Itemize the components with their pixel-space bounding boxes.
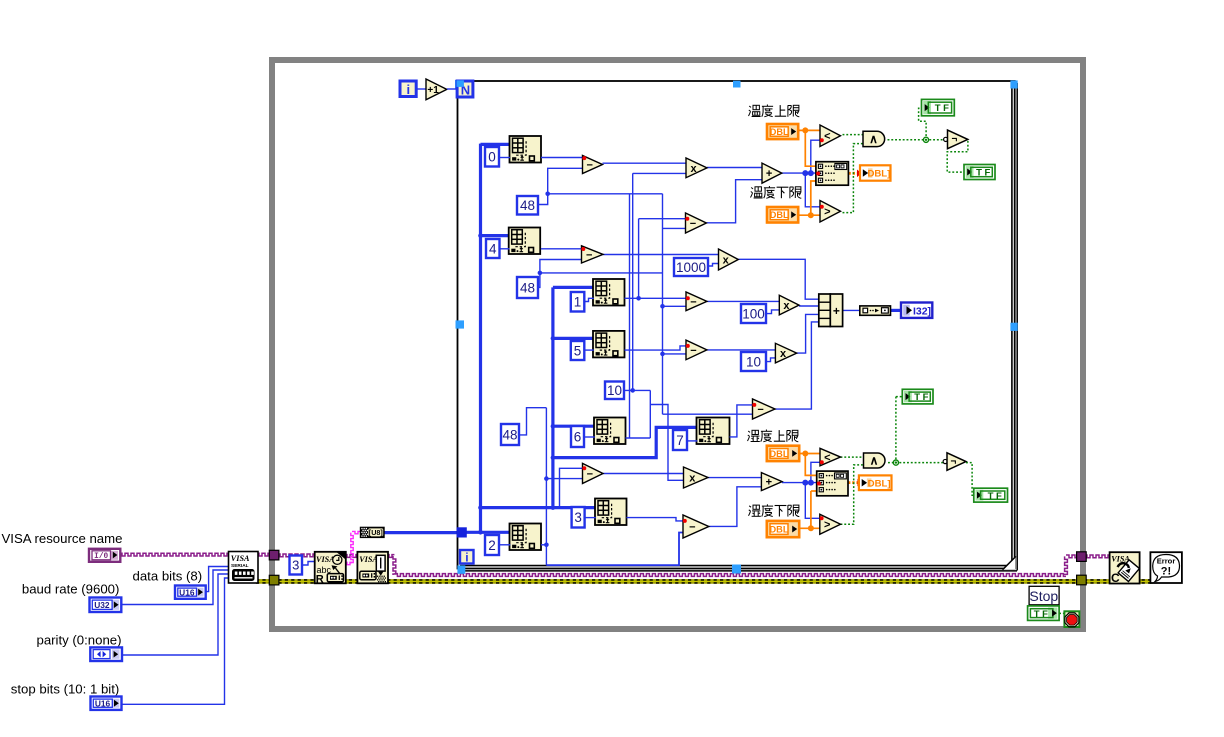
wire data bits to serial config <box>204 567 230 592</box>
constant 1 <box>571 292 585 312</box>
svg-text:?!: ?! <box>1161 566 1171 578</box>
wire 48 tap to subtract3 lower input <box>663 305 687 307</box>
wire compound output to converter <box>842 309 860 311</box>
svg-text:T F: T F <box>976 168 990 179</box>
wire subtract3 output to multiply100 upper <box>707 300 779 302</box>
I32 array indicator <box>901 303 932 318</box>
tunnel olive error on while-loop left edge <box>269 575 279 585</box>
svg-text:2: 2 <box>488 538 496 553</box>
wire 48 tap to extra subtract lower input <box>663 227 686 229</box>
wire index b3 output to subtract7 upper <box>627 518 684 521</box>
index array node b7 <box>697 418 730 445</box>
svg-text:1000: 1000 <box>676 260 706 275</box>
label temperature upper limit <box>749 105 761 116</box>
wire i to increment <box>417 88 427 90</box>
svg-text:Error: Error <box>1157 557 1176 566</box>
wire VISA purple from right tunnel to VISA close <box>1084 555 1111 558</box>
wire DBL humidity lower orange to greater2 and in-range2 <box>799 527 820 529</box>
wire byte array riser x553 <box>551 287 554 507</box>
data bits U16 control <box>175 586 206 599</box>
svg-text:1: 1 <box>574 295 582 310</box>
subtract3 function <box>686 292 707 311</box>
wire extra subtract output riser to add1 lower <box>706 180 762 223</box>
index array node b3 <box>595 499 627 526</box>
svg-text:x: x <box>690 163 697 175</box>
string to byte array node <box>360 527 385 538</box>
not1 gate <box>944 137 948 141</box>
wire constant 10 right to multiply10 lower <box>766 358 775 362</box>
DBL control temperature upper limit <box>767 124 798 139</box>
less-than2 comparison <box>820 448 841 466</box>
wire constant 48a riser to subtract1 lower input and branch <box>538 168 583 204</box>
greater-than1 comparison <box>820 201 841 223</box>
svg-text:baud rate (9600): baud rate (9600) <box>22 582 120 597</box>
svg-text:T F: T F <box>914 392 928 403</box>
wire VISA resource name control to serial config <box>119 553 230 556</box>
svg-text:x: x <box>689 472 696 484</box>
parity ring control <box>90 647 122 661</box>
wire constant 1000 to multiply1000 lower <box>708 264 719 267</box>
wire VISA purple between VISA Read and VISA property icon <box>344 555 359 558</box>
wire boolean greater2 up to and2 <box>841 465 864 524</box>
wire index b1 output to subtract3 upper with riser to extra subtract <box>625 297 687 299</box>
wire boolean and1 output with junction to TF1 and not1 <box>888 139 946 141</box>
wire boolean less2 to and2 <box>841 456 864 458</box>
svg-text:>: > <box>824 206 830 218</box>
constant 0 <box>485 147 499 167</box>
wire DBL humidity upper orange to less2 and in-range2 <box>799 453 820 455</box>
wire increment to N <box>447 88 457 90</box>
wire error from right tunnel to VISA close and error handler <box>1084 579 1153 584</box>
wire 48 tap to subtract6 lower input <box>546 478 582 480</box>
while loop border <box>272 60 1083 629</box>
constant 4 <box>486 239 500 258</box>
terminal N count of for loop <box>457 81 473 97</box>
svg-text:DBL: DBL <box>770 449 789 459</box>
wire riser to subtract6 upper input <box>560 468 583 507</box>
svg-text:0: 0 <box>488 150 496 165</box>
wire subtract7 output riser to add2 lower <box>709 487 762 527</box>
wire error from VISA serial to left tunnel <box>256 579 272 584</box>
wire humidity multiply output to add2 upper <box>708 477 762 479</box>
wire boolean stop control to loop condition <box>1059 612 1065 614</box>
svg-text:+: + <box>833 304 840 318</box>
wire DBL lower-limit orange to greater1 and in-range <box>798 214 820 216</box>
multiply10 function <box>775 343 796 363</box>
constant 2 <box>485 535 499 555</box>
wire branch up to less1 lower <box>811 140 821 173</box>
constant 3 index <box>572 507 585 528</box>
wire boolean greater1 up to and1 <box>843 144 863 213</box>
constant 7 <box>673 430 687 450</box>
in-range-and-coerce 2 <box>817 471 848 496</box>
svg-text:T F: T F <box>988 491 1002 502</box>
wire multiply1 output to add1 upper <box>707 167 762 169</box>
wire byte array vertical riser x480 <box>479 144 482 533</box>
for loop corner fold <box>1003 557 1016 570</box>
wire converter output thick to I32 indicator <box>891 309 902 312</box>
svg-text:−: − <box>690 296 696 308</box>
constant 10 left <box>605 382 624 400</box>
svg-text:stop bits (10: 1 bit): stop bits (10: 1 bit) <box>11 682 119 697</box>
wire constant 2 to index input <box>499 544 510 546</box>
wire 48b long branch to vertical distribution x662 <box>540 272 663 274</box>
wire constant 3 to index input <box>585 517 596 519</box>
svg-text:100: 100 <box>742 306 765 321</box>
resize handle left-middle of for loop <box>456 320 465 328</box>
svg-text:DBL: DBL <box>770 524 789 534</box>
svg-text:SERIAL: SERIAL <box>231 563 249 569</box>
svg-text:+1: +1 <box>427 85 439 96</box>
in-range-and-coerce 1 <box>816 162 849 186</box>
wire 48 vertical distribution x662 with taps <box>662 194 664 414</box>
wire byte-count 3 to VISA Read <box>302 562 316 566</box>
svg-text:T F: T F <box>1034 609 1048 620</box>
wire constant 48b riser to subtract2 lower input <box>538 260 582 288</box>
svg-text:R: R <box>316 573 324 585</box>
loop condition terminal <box>1064 611 1079 627</box>
resize handle over N corner <box>457 80 464 87</box>
wire byte array branch y507 to index-array 3 <box>481 506 597 509</box>
simple error handler icon <box>1150 552 1182 583</box>
svg-text:U16: U16 <box>95 698 111 708</box>
terminal i of while loop <box>400 81 416 97</box>
wire stop bits to serial config <box>120 578 230 704</box>
svg-text:+: + <box>766 477 772 489</box>
wire bottom run to subtract7 lower input <box>546 533 683 566</box>
and2 gate <box>864 453 886 468</box>
label humidity upper limit <box>748 430 760 441</box>
wire VISA resource purple from serial-config to left tunnel <box>256 553 274 556</box>
tunnel solid blue byte-array on for-loop left edge <box>457 527 467 537</box>
svg-text:<: < <box>824 131 830 143</box>
multiply100 function <box>779 295 799 315</box>
wire 48 tap to subtract4 lower input <box>663 353 687 355</box>
svg-text:parity (0:none): parity (0:none) <box>37 633 122 648</box>
wire branch down to greater2 upper <box>805 483 820 519</box>
svg-text:DBL]: DBL] <box>868 478 891 489</box>
wire byte array branch to index-array 0 <box>481 143 511 146</box>
svg-text:10: 10 <box>607 383 622 398</box>
svg-text:x: x <box>783 300 790 312</box>
svg-text:3: 3 <box>292 558 299 573</box>
wire byte array branch to index-array 6 <box>553 425 595 428</box>
index array node b2 <box>510 524 542 551</box>
wire 48 tap to subtract5 lower input <box>663 413 753 415</box>
baud rate U32 control <box>90 598 122 613</box>
wire index b7 output to subtract5 upper <box>730 405 753 437</box>
resize handle top-middle of for loop <box>733 81 741 88</box>
DBL array indicator temperature <box>860 165 891 180</box>
svg-text:48: 48 <box>502 427 517 442</box>
resize handle top-left of for loop <box>455 80 464 89</box>
DBL control humidity lower limit <box>767 521 799 537</box>
svg-text:>: > <box>824 519 830 531</box>
subtract7 function <box>683 515 709 538</box>
wire index b5 output to subtract4 upper <box>625 346 687 350</box>
index array node b6 <box>594 418 626 445</box>
wire byte array branch to index-array 4 <box>481 234 510 237</box>
svg-text:DBL]: DBL] <box>867 169 890 180</box>
not2 gate <box>943 459 947 463</box>
svg-text:3: 3 <box>574 510 582 525</box>
TF indicator temperature normal <box>964 165 995 180</box>
wire constant 7 to index input <box>687 440 697 442</box>
constant 6 <box>571 426 584 447</box>
constant 48 first <box>517 196 538 215</box>
wire in-range2 output dashed orange to DBL array indicator 2 <box>848 481 859 484</box>
index array node b1 <box>593 279 625 306</box>
wire constant 48c up-over jog to vertical x546 <box>519 408 546 435</box>
wire parity to serial config <box>121 574 230 655</box>
wire 48c vertical distribution x546 <box>545 408 547 566</box>
extra subtract function <box>686 213 707 233</box>
wire 48a branch right to distribution vertical <box>548 193 663 195</box>
wire boolean and2 output with junction to TF3 and not2 <box>888 462 945 464</box>
wire byte array branch y457 toward index-array 7 <box>553 427 698 457</box>
svg-text:[U8]: [U8] <box>369 528 383 537</box>
svg-text:5: 5 <box>574 343 582 358</box>
tunnel purple VISA on while-loop right edge <box>1077 552 1087 562</box>
svg-text:48: 48 <box>520 198 535 213</box>
terminal i of for loop <box>460 550 474 564</box>
tunnel purple VISA on while-loop left edge <box>269 550 279 560</box>
compound arithmetic add node <box>819 294 831 327</box>
wire byte array branch to index-array 5 <box>553 337 594 340</box>
svg-text:i: i <box>406 82 410 97</box>
index array node b0 <box>510 136 542 163</box>
constant 10 right <box>741 352 766 371</box>
svg-text:¬: ¬ <box>951 456 957 467</box>
svg-text:−: − <box>689 521 695 533</box>
resize handle bottom-left of for loop <box>457 565 465 573</box>
svg-text:¬: ¬ <box>951 134 957 145</box>
wire boolean less1 to and1 <box>843 134 863 136</box>
svg-text:10: 10 <box>746 354 761 369</box>
less-than1 comparison <box>820 125 841 147</box>
subtract4 function <box>686 340 707 360</box>
converter node to I32 <box>860 306 891 315</box>
wire constant 100 to multiply100 lower <box>766 310 779 314</box>
wire constant 10 left riser to multiply1 lower input <box>624 389 650 391</box>
svg-text:I32]: I32] <box>913 305 931 317</box>
svg-text:VISA: VISA <box>359 555 378 564</box>
wire 10 branch down to humidity multiply <box>649 390 651 438</box>
VISA resource name control <box>89 549 120 562</box>
svg-text:−: − <box>586 159 592 171</box>
wire DBL upper-limit orange to less1 and in-range <box>798 129 820 131</box>
constant 3 byte count <box>290 556 303 575</box>
label temperature lower limit <box>751 187 763 198</box>
tunnel olive error on while-loop right edge <box>1077 575 1087 585</box>
resize handle right-middle of for loop <box>1010 323 1017 331</box>
subtract2 function <box>582 246 604 263</box>
resize handle top-right of for loop <box>1010 80 1017 88</box>
svg-text:7: 7 <box>676 433 684 448</box>
VISA close icon <box>1110 552 1140 583</box>
wire subtract5 output riser to compound input4 <box>775 322 819 409</box>
TF indicator temperature alarm <box>922 99 955 115</box>
wire subtract4 output to multiply10 upper <box>707 349 776 351</box>
svg-text:−: − <box>586 249 592 261</box>
VISA bytes-at-port property icon <box>357 552 388 584</box>
stop TF control <box>1028 606 1060 621</box>
DBL control temperature lower limit <box>767 207 798 223</box>
wire byte array from String-To-Byte-Array to for-loop tunnel <box>384 531 460 534</box>
greater-than2 comparison <box>820 514 841 534</box>
wire constant 6 to index input <box>584 436 595 438</box>
wire index b0 output to subtract1 <box>541 157 583 159</box>
humidity multiply function <box>684 467 709 488</box>
svg-text:Stop: Stop <box>1029 588 1058 604</box>
multiply1000 function <box>719 249 739 270</box>
wire subtract2 output to multiply1000 upper <box>603 254 719 256</box>
label humidity lower limit <box>749 505 761 516</box>
wire byte array trunk inside loop to index-array 2 with junction <box>464 531 511 534</box>
wire branch down to greater1 upper <box>805 173 820 207</box>
wire index b6 output joining riser <box>626 437 651 439</box>
wire constant 5 to index input <box>584 349 594 351</box>
svg-text:T F: T F <box>935 103 949 114</box>
stop bits U16 control <box>91 697 122 710</box>
for loop border <box>458 81 1015 569</box>
index array node b5 <box>593 331 625 358</box>
wire multiply100 output to compound input2 <box>799 305 819 307</box>
subtract6 function <box>583 463 604 483</box>
svg-text:4: 4 <box>489 241 497 256</box>
index array node b4 <box>509 228 541 255</box>
svg-text:+: + <box>766 168 772 180</box>
wire baud rate to serial config <box>119 570 230 605</box>
constant 100 <box>741 304 766 323</box>
wire subtract6 output to humidity multiply upper <box>603 473 684 475</box>
wire constant 0 to index input <box>499 157 510 159</box>
wire vertical x629 passing down <box>629 194 631 438</box>
add2 function <box>761 473 782 491</box>
constant 1000 <box>674 258 708 276</box>
svg-text:i: i <box>465 551 468 565</box>
svg-text:−: − <box>690 345 696 357</box>
wire in-range1 output dashed orange to DBL array indicator <box>848 172 859 175</box>
constant 5 <box>571 341 585 360</box>
wire string pink VISA Read to String-To-Byte-Array <box>344 562 352 564</box>
svg-text:∧: ∧ <box>870 454 879 468</box>
svg-text:∧: ∧ <box>869 132 878 146</box>
wire byte array branch to index-array 1 <box>553 286 594 289</box>
svg-text:U32: U32 <box>94 600 110 610</box>
constant 48 third <box>501 424 519 445</box>
svg-text:6: 6 <box>574 429 582 444</box>
wire constant 1 to index input <box>584 298 594 301</box>
DBL control humidity upper limit <box>767 446 799 461</box>
wire branch up to less2 lower <box>811 462 821 482</box>
svg-text:VISA resource name: VISA resource name <box>2 531 123 546</box>
svg-text:48: 48 <box>520 280 535 295</box>
add1 function <box>762 163 782 183</box>
and1 gate <box>863 131 885 146</box>
VISA configure serial port icon <box>229 552 259 584</box>
DBL array indicator humidity <box>859 475 892 490</box>
constant 48 second <box>517 277 538 298</box>
svg-text:−: − <box>757 404 763 416</box>
multiply1 function <box>686 158 707 178</box>
wire add2 output to in-range2 with junctions <box>782 482 817 484</box>
wire index b2 output joins vertical <box>541 544 546 546</box>
wire index b4 output to subtract2 <box>541 248 582 250</box>
wire VISA purple inside loop: tunnel to VISA Read <box>277 554 316 557</box>
svg-text:data bits (8): data bits (8) <box>133 569 203 584</box>
wire multiply10 output riser to compound input3 <box>797 314 819 353</box>
svg-text:VISA: VISA <box>231 554 250 563</box>
wire constant 4 to index input <box>500 248 510 250</box>
svg-text:DBL: DBL <box>770 210 789 220</box>
stop button label <box>1029 586 1059 605</box>
subtract1 function <box>583 156 603 174</box>
VISA read icon <box>315 552 346 584</box>
wire VISA purple from property icon down and right below for-loop to right tunnel <box>386 555 394 558</box>
wire add1 output to in-range with junctions <box>782 172 816 174</box>
subtract5 function <box>753 399 776 419</box>
resize handle bottom-middle of for loop <box>732 565 741 574</box>
TF indicator humidity normal <box>974 488 1008 502</box>
svg-text:I/0: I/0 <box>94 553 108 561</box>
svg-text:−: − <box>587 468 593 480</box>
wire error cluster long olive-black dashed from left tunnel to right tunnel <box>272 579 1081 584</box>
wire subtract1 output to multiply1 upper <box>603 162 687 164</box>
wire boolean not1 output to TF2 <box>947 140 968 172</box>
TF indicator humidity alarm <box>902 389 933 404</box>
svg-text:<: < <box>824 452 830 464</box>
svg-text:U16: U16 <box>179 587 195 597</box>
svg-text:−: − <box>690 218 696 230</box>
increment +1 function <box>426 79 447 100</box>
wire boolean not2 output to TF4 <box>966 463 974 496</box>
svg-text:DBL: DBL <box>770 127 789 137</box>
svg-text:x: x <box>780 348 787 360</box>
svg-text:x: x <box>723 254 730 266</box>
wire multiply1000 output down to compound input1 <box>738 259 819 299</box>
